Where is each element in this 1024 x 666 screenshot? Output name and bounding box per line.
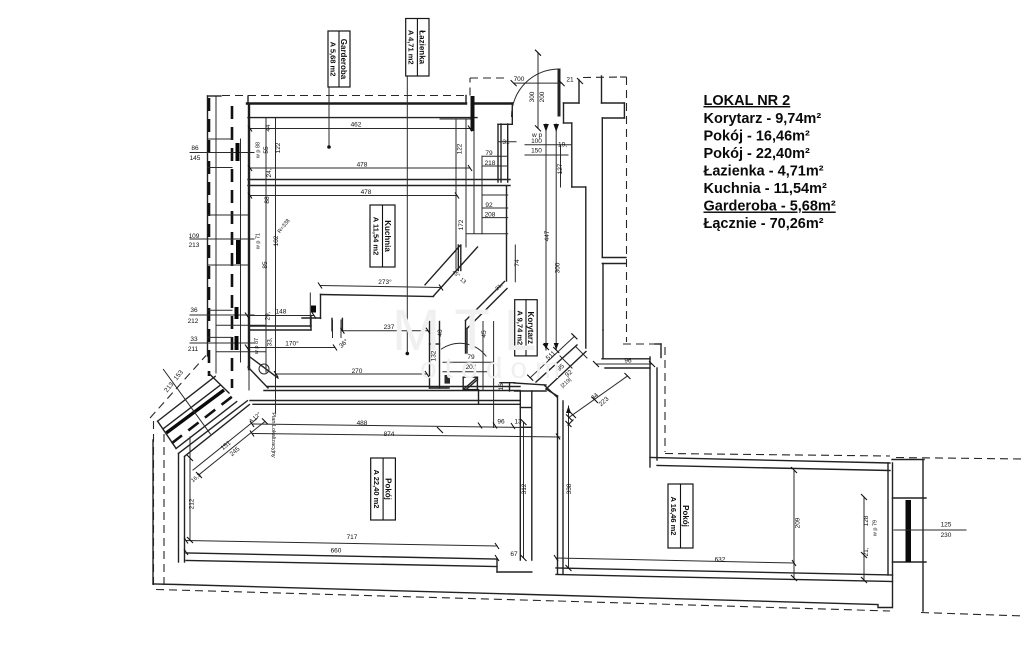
svg-text:300: 300 bbox=[529, 91, 536, 102]
svg-text:127: 127 bbox=[557, 163, 564, 174]
svg-text:w p 71: w p 71 bbox=[256, 233, 262, 250]
dim 79-202 bbox=[443, 361, 493, 363]
svg-text:92: 92 bbox=[485, 202, 493, 209]
dim 462 garderoba bbox=[250, 128, 470, 130]
svg-text:LOKAL NR 2: LOKAL NR 2 bbox=[704, 93, 791, 109]
svg-text:122: 122 bbox=[275, 142, 282, 153]
wall under stairs to room 16,46 bbox=[602, 357, 657, 467]
top-left wall corner bbox=[208, 96, 249, 104]
svg-text:Plan Lokalizacyjny: Plan Lokalizacyjny bbox=[270, 412, 276, 457]
svg-text:Korytarz - 9,74m²: Korytarz - 9,74m² bbox=[704, 111, 822, 127]
dim 874 bbox=[252, 434, 560, 438]
svg-text:A 4,71 m2: A 4,71 m2 bbox=[407, 30, 416, 65]
svg-text:Kuchnia - 11,54m²: Kuchnia - 11,54m² bbox=[704, 181, 827, 197]
outer dashed boundary bottom bbox=[150, 356, 1024, 617]
corridor diagonal wall bbox=[536, 345, 586, 389]
svg-text:102: 102 bbox=[273, 235, 280, 246]
svg-text:148: 148 bbox=[276, 309, 287, 316]
svg-text:478: 478 bbox=[361, 189, 372, 196]
svg-text:212: 212 bbox=[188, 318, 199, 325]
dim 125/230 line bbox=[894, 529, 966, 531]
svg-text:100: 100 bbox=[531, 138, 542, 145]
dim 148 bbox=[247, 315, 314, 317]
garderoba top wall bbox=[247, 102, 466, 104]
dim 488 bbox=[252, 424, 526, 428]
dim 100/150 rows bbox=[525, 145, 571, 155]
svg-text:33,: 33, bbox=[267, 337, 274, 346]
dim 478 kitchen bbox=[250, 195, 457, 197]
svg-text:67: 67 bbox=[510, 551, 518, 558]
dim door top 700 bbox=[514, 82, 562, 84]
room label box Kuchnia bbox=[370, 205, 395, 267]
dim verticals right door 125 bbox=[863, 497, 865, 580]
svg-text:86: 86 bbox=[191, 145, 199, 152]
arrowheads 447/300 bbox=[544, 343, 549, 350]
svg-text:44: 44 bbox=[265, 124, 272, 132]
room 16,46 bottom wall bbox=[556, 568, 893, 582]
svg-text:w p: w p bbox=[531, 132, 543, 139]
balcony strip (diagonal) bbox=[158, 374, 237, 449]
corridor chamfer to kitchen door bbox=[466, 282, 508, 354]
dim 328 bbox=[568, 406, 570, 568]
svg-text:270: 270 bbox=[352, 368, 363, 375]
dim 478 garderoba bbox=[250, 167, 470, 169]
stair block bbox=[602, 76, 662, 359]
svg-text:w p 79: w p 79 bbox=[873, 520, 879, 537]
room 22,40 diagonal dim chain bbox=[193, 419, 265, 475]
svg-text:29,: 29, bbox=[265, 311, 272, 320]
svg-text:660: 660 bbox=[331, 548, 342, 555]
kitchen bottom-left wall bbox=[249, 316, 311, 331]
svg-text:213: 213 bbox=[189, 242, 200, 249]
bath door left jamb step bbox=[498, 103, 512, 182]
dim 270 bbox=[276, 373, 427, 375]
window blob kitchen sill bbox=[311, 306, 316, 313]
svg-text:33: 33 bbox=[190, 336, 198, 343]
kitchen door arc bbox=[442, 343, 487, 356]
svg-text:170°: 170° bbox=[285, 340, 299, 348]
tiny labels diagonal bbox=[163, 218, 610, 484]
dim 36 step bbox=[333, 320, 342, 338]
tiny dim number labels rotated bbox=[189, 91, 879, 556]
dim 96 under stairs bbox=[596, 363, 652, 365]
svg-text:273°: 273° bbox=[378, 278, 392, 286]
svg-text:A 16,46 m2: A 16,46 m2 bbox=[669, 497, 678, 536]
svg-text:Pokój - 16,46m²: Pokój - 16,46m² bbox=[704, 129, 811, 145]
dim 74 corridor small bbox=[514, 245, 516, 282]
left boundary ladder: solid rail bbox=[207, 96, 209, 356]
svg-text:462: 462 bbox=[351, 122, 362, 129]
svg-text:88: 88 bbox=[264, 196, 271, 204]
svg-text:24,: 24, bbox=[266, 168, 273, 177]
svg-text:125: 125 bbox=[941, 522, 952, 529]
svg-text:A 5,68 m2: A 5,68 m2 bbox=[329, 42, 338, 77]
svg-text:312: 312 bbox=[521, 483, 528, 494]
step to 237 bbox=[332, 318, 342, 330]
legend text block bbox=[704, 93, 836, 232]
svg-text:200: 200 bbox=[539, 91, 546, 102]
svg-text:Pokój: Pokój bbox=[681, 505, 690, 527]
wall right of top door bbox=[564, 80, 586, 187]
svg-text:Pokój: Pokój bbox=[383, 478, 392, 500]
left boundary ladder: heavy dashed rails bbox=[208, 98, 211, 376]
small circle symbol near kitchen chamfer bbox=[259, 364, 269, 374]
wall strip above room 22,40 bbox=[250, 387, 520, 405]
bathroom dim rungs bbox=[466, 142, 516, 234]
leader garderoba bbox=[327, 88, 331, 149]
svg-text:74: 74 bbox=[514, 259, 521, 267]
room label box Lazienka bbox=[406, 19, 429, 77]
dim 212 room left bbox=[189, 437, 191, 540]
svg-text:Łącznie - 70,26m²: Łącznie - 70,26m² bbox=[704, 216, 824, 232]
kitchen right wall + chamfer bbox=[425, 245, 478, 296]
room label box Pokoj 22,40 bbox=[371, 458, 396, 520]
garderoba-kitchen divider wall bbox=[248, 180, 510, 186]
svg-text:w p 87: w p 87 bbox=[254, 338, 260, 355]
svg-text:Kuchnia: Kuchnia bbox=[383, 220, 392, 252]
room 16,46 top wall bbox=[650, 458, 890, 471]
svg-text:717: 717 bbox=[347, 534, 358, 541]
svg-text:632: 632 bbox=[715, 557, 726, 564]
svg-text:Pokój - 22,40m²: Pokój - 22,40m² bbox=[704, 146, 811, 162]
step walls between corridor and rooms bbox=[500, 383, 557, 560]
svg-text:96: 96 bbox=[624, 358, 632, 365]
svg-text:Łazienka: Łazienka bbox=[418, 30, 427, 64]
svg-text:122: 122 bbox=[457, 143, 464, 154]
corridor right wall bbox=[585, 187, 587, 348]
svg-text:150: 150 bbox=[531, 148, 542, 155]
svg-text:Łazienka - 4,71m²: Łazienka - 4,71m² bbox=[704, 164, 824, 180]
door leaf bar + arc (top entry) bbox=[558, 69, 561, 117]
svg-text:36: 36 bbox=[190, 307, 198, 314]
svg-text:85: 85 bbox=[262, 261, 269, 269]
dim 300/200 vertical at door bbox=[537, 53, 539, 129]
kitchen SW chamfer bbox=[248, 357, 278, 388]
svg-text:w p 88: w p 88 bbox=[256, 142, 262, 159]
svg-text:A 11,54 m2: A 11,54 m2 bbox=[371, 217, 380, 256]
garderoba left / kitchen left wall bbox=[248, 104, 250, 369]
svg-text:96: 96 bbox=[497, 419, 505, 426]
svg-text:874: 874 bbox=[384, 431, 395, 438]
dim 632 bbox=[556, 558, 794, 563]
watermark faint bbox=[392, 298, 568, 385]
svg-text:Garderoba - 5,68m²: Garderoba - 5,68m² bbox=[704, 199, 836, 215]
svg-text:145: 145 bbox=[190, 155, 201, 162]
leader lazienka bbox=[406, 76, 410, 355]
svg-text:218: 218 bbox=[485, 160, 496, 167]
dim 170 bbox=[247, 347, 335, 349]
svg-text:55: 55 bbox=[263, 146, 270, 154]
wall pier box at corridor bottom bbox=[463, 377, 477, 389]
outer solid boundary bottom bbox=[153, 440, 924, 611]
dim verticals left chain bbox=[249, 118, 276, 413]
svg-text:A 22,40 m2: A 22,40 m2 bbox=[372, 470, 381, 509]
svg-text:172: 172 bbox=[458, 219, 465, 230]
bathroom ladder verticals bbox=[440, 119, 474, 269]
dim small verticals near kitchen door bbox=[483, 322, 494, 428]
room label box Pokoj 16,46 bbox=[668, 484, 693, 548]
dim 24 step vertical bbox=[309, 293, 311, 327]
room 16,46 right wall bbox=[888, 463, 893, 608]
svg-text:Garderoba: Garderoba bbox=[339, 39, 348, 80]
room label box Garderoba bbox=[328, 31, 350, 87]
svg-text:700: 700 bbox=[514, 76, 525, 83]
room 22,40 bottom wall bbox=[186, 553, 532, 572]
svg-text:300: 300 bbox=[555, 262, 562, 273]
svg-text:31: 31 bbox=[502, 139, 510, 146]
svg-text:208: 208 bbox=[485, 212, 496, 219]
balcony door right (black bar) bbox=[893, 498, 927, 562]
diagonal dim chains corridor bbox=[530, 336, 627, 417]
balcony leader 153/213 bbox=[163, 369, 210, 434]
svg-text:128: 128 bbox=[863, 515, 870, 526]
svg-text:211: 211 bbox=[188, 346, 199, 353]
dim 273 kitchen bbox=[320, 286, 441, 288]
tiny dim number labels horizontal bbox=[188, 76, 952, 564]
room label box Korytarz bbox=[515, 300, 538, 356]
svg-text:447: 447 bbox=[544, 230, 551, 241]
garderoba right wall stubs bbox=[471, 96, 475, 131]
svg-text:19,: 19, bbox=[558, 142, 567, 149]
svg-text:79: 79 bbox=[485, 150, 493, 157]
bath/corridor left wall bbox=[501, 124, 508, 281]
dim 312 bbox=[523, 422, 525, 558]
svg-text:109: 109 bbox=[189, 233, 200, 240]
shaft box below kitchen bbox=[430, 322, 450, 389]
dim end ticks bbox=[184, 50, 867, 583]
outer dashed boundary top bbox=[222, 77, 1024, 459]
svg-text:otodom: otodom bbox=[420, 352, 568, 385]
svg-text:478: 478 bbox=[357, 162, 368, 169]
window tick bars on left wall bbox=[237, 143, 239, 350]
room 16,46 left wall bbox=[546, 389, 563, 574]
svg-text:212: 212 bbox=[189, 498, 196, 509]
dim 717 bbox=[186, 541, 497, 547]
ladder rungs bbox=[190, 139, 265, 352]
svg-text:488: 488 bbox=[357, 420, 368, 427]
dim 209 bbox=[793, 470, 795, 578]
kitchen bottom wall right part bbox=[302, 294, 434, 318]
svg-text:338: 338 bbox=[566, 483, 573, 494]
svg-text:230: 230 bbox=[941, 532, 952, 539]
dim 127/447/300 corridor verticals bbox=[560, 145, 562, 187]
room 22,40 diagonal wall bbox=[179, 401, 250, 562]
dim 237 bbox=[342, 330, 428, 332]
svg-text:21: 21 bbox=[566, 77, 574, 84]
svg-text:209: 209 bbox=[795, 517, 802, 528]
